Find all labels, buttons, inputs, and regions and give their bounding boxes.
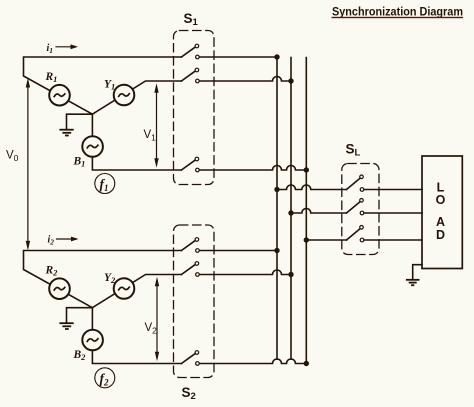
- svg-text:R1: R1: [45, 71, 58, 84]
- source B1: [73, 136, 103, 168]
- junction: bus R / SL pole 1: [274, 187, 279, 192]
- wire: S1 pole 3 output to bus B (hops over buses R and Y): [200, 166, 307, 171]
- svg-text:O: O: [436, 193, 446, 207]
- switch S2 pole 1 (phase R): [181, 238, 199, 253]
- wire: SL pole 1 output to load: [364, 189, 422, 191]
- junction: bus Y / SL pole 2: [288, 210, 293, 215]
- svg-text:SL: SL: [346, 142, 361, 159]
- wire: generator 2 phase R (top wire, left drop, diagonal to star): [24, 251, 182, 308]
- svg-text:S2: S2: [182, 385, 196, 402]
- title text: [332, 4, 464, 18]
- svg-text:i2: i2: [48, 235, 55, 247]
- svg-text:Y1: Y1: [104, 79, 115, 92]
- wire: generator 1 phase Y (star to corner to S1 pole 2): [92, 81, 181, 114]
- ground (generator 2 neutral / star point): [60, 308, 92, 329]
- ground (generator 1 neutral / star point): [60, 114, 92, 135]
- svg-text:i1: i1: [47, 43, 54, 55]
- switch S1 pole 1 (phase R): [181, 44, 199, 59]
- junction: bus R / S2 pole 1: [274, 248, 279, 253]
- junction: bus B / S2 pole 3: [304, 361, 309, 366]
- wire: S1 pole 2 output to bus Y (hop over bus R): [200, 77, 291, 82]
- svg-text:f2: f2: [100, 371, 110, 388]
- svg-text:B1: B1: [73, 156, 86, 169]
- junction: bus Y / S2 pole 2: [288, 272, 293, 277]
- voltage arrow V0 (between generator 1 and generator 2): [6, 78, 30, 250]
- frequency label f1: [95, 174, 115, 194]
- svg-text:R2: R2: [45, 265, 59, 278]
- wire: SL pole 3 output to load: [364, 239, 422, 241]
- switch S1 enclosure and label: [174, 11, 215, 185]
- source R1: [45, 71, 70, 105]
- wire: generator 2 phase Y (star to corner to S2 pole 2): [92, 275, 181, 308]
- source B2: [73, 330, 103, 362]
- svg-text:f1: f1: [100, 177, 109, 194]
- junction: bus B / SL pole 3: [304, 237, 309, 242]
- switch SL pole 2: [347, 199, 364, 215]
- wire: S1 pole 1 output to bus R: [200, 56, 277, 58]
- wire: bus Y to SL pole 2 (hop over bus B): [291, 209, 347, 214]
- svg-text:Synchronization Diagram: Synchronization Diagram: [332, 4, 463, 18]
- junction: bus B / S1 pole 3: [304, 167, 309, 172]
- wire: generator 1 phase B (star down through B1 to corner then to S1 pole 3): [92, 114, 181, 170]
- wire: generator 2 phase B (star down through B2 to corner then to S2 pole 3): [92, 308, 181, 364]
- svg-text:B2: B2: [73, 349, 87, 362]
- voltage arrow V2 (generator 2 phase voltage): [145, 277, 160, 362]
- source R2: [45, 265, 70, 300]
- switch S2 pole 2 (phase Y): [181, 262, 199, 277]
- load block: [422, 156, 462, 269]
- svg-text:V2: V2: [145, 322, 158, 336]
- switch S2 enclosure and label: [174, 225, 215, 402]
- svg-text:V1: V1: [144, 129, 157, 143]
- bus Y (middle vertical bus): [290, 58, 292, 360]
- wire: SL pole 2 output to load: [364, 212, 422, 214]
- bus R (leftmost vertical bus): [276, 57, 278, 359]
- switch S1 pole 2 (phase Y): [181, 68, 199, 83]
- svg-text:S1: S1: [184, 11, 199, 28]
- source Y2: [104, 272, 134, 299]
- wire: bus B to SL pole 3: [306, 239, 346, 241]
- voltage arrow V1 (generator 1 phase voltage): [144, 83, 159, 168]
- switch SL pole 3: [347, 226, 364, 242]
- svg-text:D: D: [436, 228, 445, 242]
- switch S2 pole 3 (phase B): [181, 351, 199, 366]
- wire: S2 pole 1 output to bus R: [200, 250, 277, 252]
- wire: generator 1 phase R (top wire, left drop, diagonal to star): [24, 57, 182, 114]
- switch SL pole 1: [347, 175, 364, 191]
- wire: bus R to SL pole 1 (hops buses Y and B): [277, 185, 347, 190]
- frequency label f2: [95, 368, 115, 388]
- svg-text:Y2: Y2: [104, 272, 116, 285]
- source Y1: [104, 79, 134, 106]
- switch S1 pole 3 (phase B): [181, 157, 199, 172]
- wire: S2 pole 3 output to bus B (hops over buses R and Y): [200, 359, 307, 364]
- svg-text:V0: V0: [6, 150, 19, 164]
- svg-text:A: A: [436, 215, 445, 229]
- bus B (rightmost vertical bus): [305, 58, 307, 364]
- junction: bus R / S1 pole 1: [274, 54, 279, 59]
- current arrow i1: [47, 43, 79, 55]
- ground (load): [407, 265, 422, 286]
- wire: S2 pole 2 output to bus Y (hop over bus R): [200, 270, 291, 275]
- current arrow i2: [48, 235, 79, 247]
- junction: bus Y / S1 pole 2: [288, 78, 293, 83]
- switch SL enclosure and label: [342, 142, 379, 255]
